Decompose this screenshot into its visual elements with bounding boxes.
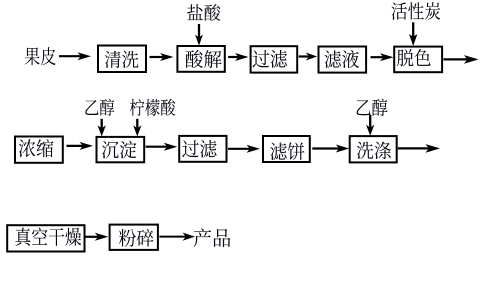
arrow 酸解→过滤: [228, 53, 248, 61]
process box 真空干燥: [7, 225, 84, 251]
arrow 过滤→滤液: [299, 53, 318, 61]
process box 滤液: [319, 47, 367, 73]
arrow 浓缩→沉淀: [67, 142, 94, 150]
node 产品 (final product label): [194, 228, 231, 247]
label 脱色: [397, 49, 431, 66]
reagent label 乙醇 (row2 left): [85, 99, 114, 116]
process box 清洗: [98, 46, 146, 73]
arrow 真空干燥→粉碎: [86, 233, 109, 241]
label 真空干燥: [15, 227, 81, 245]
arrow 脱色→output (row1 exit): [444, 55, 479, 64]
arrow 柠檬酸→沉淀 (vertical feed): [133, 119, 141, 137]
label 浓缩: [19, 139, 54, 157]
process box 洗涤: [350, 136, 397, 162]
process box 粉碎: [110, 225, 158, 250]
arrow 盐酸→酸解 (vertical feed): [195, 24, 203, 46]
arrow 过滤2→滤饼: [228, 145, 260, 153]
arrow 果皮→清洗: [59, 52, 91, 60]
label 清洗: [105, 51, 139, 68]
label 过滤 row2: [182, 140, 216, 158]
process box 过滤 (row2): [179, 136, 226, 162]
label 酸解: [186, 50, 222, 68]
label 粉碎: [119, 229, 154, 247]
arrow 滤液→脱色: [371, 53, 394, 61]
process box 过滤 (row1): [251, 46, 298, 72]
process box 滤饼: [263, 136, 310, 162]
arrow 沉淀→过滤2: [146, 143, 178, 151]
label 滤饼: [270, 142, 304, 160]
arrow 乙醇→洗涤 (vertical feed): [366, 115, 374, 136]
arrow 洗涤→output (row2 exit): [398, 144, 440, 153]
process box 浓缩: [15, 137, 63, 163]
process box 脱色: [394, 47, 442, 73]
arrow 滤饼→洗涤: [312, 145, 349, 153]
process box 酸解: [177, 46, 224, 72]
reagent label 乙醇 (row2 right): [357, 99, 388, 117]
reagent label 柠檬酸: [130, 99, 175, 116]
node 果皮 (raw material label): [25, 47, 56, 65]
process box 沉淀: [97, 137, 145, 162]
arrow 清洗→酸解: [150, 53, 174, 61]
label 过滤 row1: [253, 50, 287, 68]
reagent label 盐酸: [187, 4, 220, 21]
arrow 活性炭→脱色 (vertical feed): [409, 22, 417, 46]
label 洗涤: [357, 141, 391, 159]
label 沉淀: [102, 141, 136, 159]
arrow 粉碎→产品: [159, 233, 195, 241]
arrow 乙醇→沉淀 (vertical feed): [98, 119, 106, 137]
label 滤液: [324, 50, 358, 68]
reagent label 活性炭: [391, 2, 440, 20]
